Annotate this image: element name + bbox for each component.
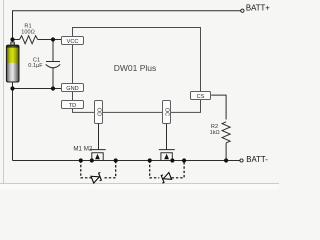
diode D1 [91, 172, 103, 183]
svg-text:CS: CS [197, 94, 205, 100]
wire OD pin to M1 gate [98, 124, 100, 150]
junction node C1 bottom [51, 86, 55, 90]
junction node D1 left [79, 158, 83, 162]
wire OC pin to M2 gate [166, 124, 168, 150]
wire battery bottom to gnd row [12, 82, 14, 89]
svg-text:BATT+: BATT+ [246, 4, 270, 13]
svg-text:BATT-: BATT- [246, 155, 268, 164]
pin GND [62, 84, 84, 92]
svg-text:OD: OD [96, 108, 102, 116]
pin VCC [62, 37, 84, 45]
battery BT1 [6, 42, 19, 82]
junction node R1/VCC/C1 [51, 37, 55, 41]
svg-text:GND: GND [66, 86, 78, 92]
transistor M2 [159, 150, 175, 161]
junction node at battery top [10, 37, 14, 41]
resistor R1 [13, 23, 54, 43]
svg-text:R2: R2 [211, 124, 218, 130]
svg-text:R1: R1 [24, 23, 31, 29]
IC U1 DW01 Plus body [73, 28, 201, 113]
transistor M1 [90, 150, 106, 161]
junction node M2 source [170, 158, 174, 162]
svg-text:1kΩ: 1kΩ [210, 130, 220, 136]
junction node R2 bottom [224, 158, 228, 162]
svg-text:TD: TD [69, 103, 76, 109]
pin CS [191, 92, 211, 100]
pin TD [62, 101, 84, 109]
svg-text:DW01 Plus: DW01 Plus [114, 63, 157, 73]
body diode D2 dashed box [150, 161, 184, 184]
label M1 M2 [73, 146, 92, 153]
junction node D2 left [148, 158, 152, 162]
wire bottom row [13, 160, 240, 162]
junction node M1 source [90, 158, 94, 162]
page background [0, 0, 279, 189]
svg-text:OC: OC [164, 108, 170, 116]
wire node to VCC pin [53, 39, 62, 41]
wire top rail BATT+ [13, 11, 241, 161]
junction node battery bottom [10, 86, 14, 90]
junction node D2 right [182, 158, 186, 162]
svg-text:VCC: VCC [67, 39, 79, 45]
svg-text:100Ω: 100Ω [21, 30, 35, 36]
pin OD [95, 101, 103, 124]
terminal BATT- [240, 155, 268, 164]
junction node D1 right [114, 158, 118, 162]
wire gnd row [13, 88, 62, 90]
svg-text:0.1µF: 0.1µF [28, 63, 43, 69]
terminal BATT+ [241, 4, 270, 13]
pin OC [163, 101, 171, 124]
diode D2 [160, 172, 172, 183]
resistor R2 [210, 122, 230, 161]
capacitor C1 [28, 40, 60, 89]
body diode D1 dashed box [81, 161, 116, 184]
wire CS to R2 [211, 95, 226, 119]
